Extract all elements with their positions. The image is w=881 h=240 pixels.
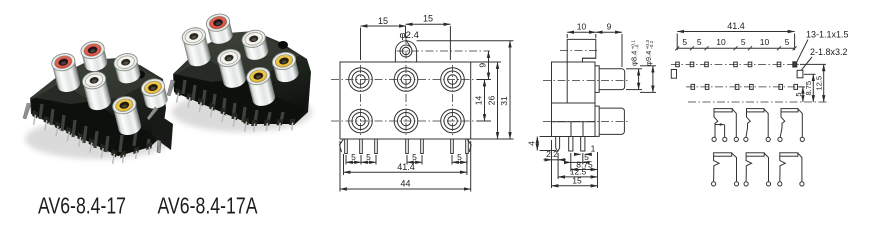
centerline col2 [405, 36, 407, 137]
svg-text:9: 9 [607, 22, 612, 32]
switch SW5 bar [746, 153, 764, 156]
dim 8.75 [571, 159, 598, 169]
svg-text:5: 5 [741, 37, 746, 47]
terminal SW3 b [800, 137, 804, 141]
mounting tab bump [395, 41, 416, 62]
bottom barrel flange [595, 106, 599, 136]
terminal SW2 b [766, 137, 770, 141]
switch SW1 right leg [732, 109, 736, 137]
svg-text:5: 5 [351, 152, 356, 162]
svg-text:13-1.1x1.5: 13-1.1x1.5 [806, 30, 849, 40]
switch SW3 contact [780, 112, 785, 137]
photo1 needle pins [34, 115, 150, 164]
jack B2 [394, 109, 418, 133]
svg-text:5: 5 [682, 37, 687, 47]
photo1 body block [30, 58, 166, 156]
pad A7 filled [793, 62, 797, 67]
internal pocket [571, 122, 595, 137]
dim phi9.4 [640, 40, 656, 93]
svg-text:5: 5 [697, 37, 702, 47]
pitch dim line [677, 47, 794, 49]
photo2 stray corner connector [147, 107, 173, 153]
photo1 jack front red [50, 51, 82, 94]
photo2 jack front white a [180, 25, 212, 68]
switch SW3 right leg [798, 109, 803, 137]
dim 8.75 pcb [804, 74, 816, 102]
dim 14 [474, 80, 492, 122]
dim 5 side [564, 152, 590, 162]
pad B5 [779, 84, 783, 89]
pad B2 [705, 84, 709, 89]
pin f3 [375, 139, 378, 154]
svg-text:2-1.8x3.2: 2-1.8x3.2 [810, 47, 848, 57]
dim 9 top [596, 22, 622, 68]
svg-text:AV6-8.4-17A: AV6-8.4-17A [158, 193, 259, 217]
extension line right ref [597, 152, 599, 188]
dim 26 [471, 62, 501, 139]
dim 9 [478, 51, 489, 80]
dim 41.4 [344, 154, 467, 175]
dim 5 pins c1a [346, 152, 361, 165]
svg-text:φ2.4: φ2.4 [400, 30, 419, 41]
terminal SW6 b [800, 182, 804, 186]
dim 15 side [552, 176, 598, 186]
switch SW1 left leg lower [714, 125, 716, 138]
terminal SW4 b [734, 182, 738, 186]
centerline row2 [331, 120, 477, 122]
photo2 needle pins [177, 93, 293, 132]
svg-text:2.2: 2.2 [546, 149, 558, 159]
photo2 top face highlight [174, 32, 300, 82]
svg-text:41.4: 41.4 [727, 21, 745, 31]
terminal SW6 a [778, 182, 782, 186]
top barrel flange [595, 66, 599, 93]
photo2 body front lower face [174, 58, 305, 124]
pad A2 [690, 62, 694, 67]
svg-text:φ9.4 +0.3-0.2: φ9.4 +0.3-0.2 [644, 40, 655, 66]
extension line pin3c [582, 153, 584, 165]
photo1 jack back yellow [140, 76, 170, 110]
photo1 front face ribs [40, 104, 149, 152]
pin f7 [466, 139, 469, 154]
extension line hookc [557, 153, 559, 179]
side pin 2 [569, 137, 573, 152]
tab hole phi2.4 [400, 45, 412, 57]
svg-text:1: 1 [591, 144, 596, 154]
tab step line [583, 57, 596, 59]
svg-text:15: 15 [378, 16, 388, 26]
switch SW3 bar [781, 109, 798, 112]
dim 10 [567, 22, 596, 39]
pin f1 [345, 139, 348, 154]
pad A6 [777, 62, 781, 67]
photo1 mounting hole [135, 71, 145, 79]
extension line pin2c [570, 153, 572, 172]
dim 5 pins c3 [452, 152, 467, 165]
svg-text:4: 4 [527, 141, 537, 146]
pad B3 [735, 84, 739, 89]
side hook pin [556, 137, 560, 152]
pad A3 [705, 62, 709, 67]
dim 2.2 [544, 149, 567, 160]
photo2 left hook pin [167, 80, 175, 96]
svg-text:AV6-8.4-17: AV6-8.4-17 [38, 193, 126, 217]
photo2 front face ribs [183, 80, 283, 123]
dim 5 pins c2 [407, 152, 422, 165]
row C centerline [688, 101, 828, 103]
switch SW2 bar [747, 109, 765, 112]
photo2 jack front yellow [245, 65, 277, 108]
switch SW1 contact [714, 112, 718, 125]
switch SW6 right leg [798, 153, 802, 181]
switch SW1 arrowhead [720, 123, 725, 126]
connector body outline [340, 62, 471, 139]
switch SW4 right leg [732, 153, 737, 181]
photo1 left hook pin [23, 103, 31, 119]
terminal SW4 a [712, 182, 716, 186]
row B centerline [686, 86, 800, 88]
centerline row1 [331, 79, 477, 81]
pitch tick 1 [675, 46, 679, 50]
internal shelf line [552, 102, 596, 104]
svg-text:31: 31 [499, 96, 509, 106]
pad B6 [794, 84, 798, 89]
svg-text:9: 9 [478, 63, 488, 68]
svg-text:5: 5 [785, 37, 790, 47]
dim phi8.4 [626, 40, 642, 90]
photo1 jack back red [79, 39, 109, 73]
label 13-1.1x1.5 [797, 30, 849, 62]
svg-text:15: 15 [572, 176, 582, 186]
photo2 jack back white [240, 28, 270, 62]
side pin 3 [581, 137, 585, 152]
terminal SW5 a [744, 182, 748, 186]
mount pad right [797, 70, 803, 78]
dim 31 [417, 41, 514, 139]
centerline col1 [360, 65, 362, 137]
svg-text:8.75: 8.75 [804, 81, 813, 96]
pitch tick 2 [690, 46, 694, 50]
photo1 top face highlight [31, 59, 158, 104]
dim 5 pins c1b [361, 152, 376, 165]
label 2-1.8x3.2 [802, 47, 848, 70]
terminal SW1 a [712, 137, 716, 141]
row A centerline [671, 63, 800, 65]
pitch tick 6 [777, 46, 781, 50]
dim 1 [575, 144, 596, 155]
photo2 jack back red [205, 12, 235, 46]
mounting tab side [567, 39, 596, 62]
switch SW1 bar [714, 109, 732, 112]
switch SW2 contact [746, 112, 750, 137]
tab centerline [560, 50, 597, 52]
photo2 fin teeth row [175, 88, 295, 126]
mount pad left [671, 70, 676, 79]
right mounting hook [467, 139, 471, 152]
switch SW5 right leg [764, 153, 768, 181]
photo2 jack back yellow [271, 50, 301, 84]
photo2 jack front white b [216, 47, 248, 90]
svg-text:5: 5 [412, 152, 417, 162]
switch SW1 wiper arm with arrow [715, 125, 725, 138]
pad A5 [748, 62, 752, 67]
internal vertical line [566, 62, 568, 103]
switch SW2 right leg [764, 109, 768, 137]
svg-text:26: 26 [487, 96, 497, 106]
centerline tab hole [397, 50, 491, 52]
pitch tick 4 [734, 46, 738, 50]
switch SW5 contact [746, 156, 752, 181]
pitch tick 5 [748, 46, 752, 50]
pad A1 [676, 62, 680, 67]
terminal SW1 c [734, 137, 738, 141]
photo1 jack back white [112, 51, 142, 85]
photo1 jack front white [81, 69, 113, 112]
terminal SW2 a [744, 137, 748, 141]
svg-text:10: 10 [716, 37, 726, 47]
pin f5 [421, 139, 424, 154]
svg-text:5: 5 [366, 152, 371, 162]
jack A2 [394, 68, 418, 92]
dim 44 [340, 141, 471, 192]
photo1 jack front yellow [111, 94, 143, 137]
svg-text:44: 44 [400, 179, 410, 189]
dim 41.4 pcb [677, 21, 794, 50]
photo1 fin teeth row [32, 110, 152, 158]
svg-text:41.4: 41.4 [397, 162, 415, 172]
top barrel [599, 69, 625, 90]
pitch tick 7 [793, 46, 797, 50]
pitch tick 3 [705, 46, 709, 50]
terminal SW5 b [766, 182, 770, 186]
photo2 mounting hole [278, 41, 288, 49]
centerline col3 [452, 65, 454, 137]
terminal SW1 b [723, 137, 727, 141]
svg-text:5: 5 [457, 152, 462, 162]
photo1 floor shadow [25, 119, 171, 159]
pin f4 [406, 139, 409, 154]
switch SW4 contact [714, 156, 720, 181]
bottom barrel [599, 108, 624, 134]
body side outline [552, 62, 596, 137]
svg-text:5: 5 [794, 92, 803, 96]
svg-text:12.5: 12.5 [815, 76, 824, 91]
svg-text:10: 10 [760, 37, 770, 47]
dim 12.5 pcb [800, 64, 826, 102]
jack A3 [441, 68, 465, 92]
pad B1 [691, 84, 695, 89]
svg-text:φ8.4 +0.1-0: φ8.4 +0.1-0 [630, 40, 641, 66]
left mounting hook [340, 139, 344, 152]
internal step vertical [552, 122, 572, 137]
label phi2.4 with leader [400, 30, 419, 47]
svg-text:10: 10 [577, 22, 587, 32]
dim 5 pcb [794, 87, 805, 102]
photo2 floor shadow [172, 92, 312, 132]
dim 15 right [406, 14, 451, 61]
dim 4 [527, 137, 557, 151]
pin f2 [360, 139, 363, 154]
pin f6 [451, 139, 454, 154]
jack B1 [349, 109, 373, 133]
top barrel centerline [543, 80, 629, 82]
extension line body left [551, 140, 553, 188]
jack B3 [441, 109, 465, 133]
switch SW4 bar [714, 153, 732, 156]
photo1 body front lower face [31, 83, 158, 156]
switch SW6 contact [780, 156, 786, 181]
svg-text:14: 14 [474, 96, 484, 106]
pad A4 [734, 62, 738, 67]
pad B4 [750, 84, 754, 89]
bottom barrel centerline [543, 121, 629, 123]
svg-text:15: 15 [423, 14, 433, 24]
photo2 body block [173, 31, 311, 124]
switch SW6 bar [780, 153, 798, 156]
dim 12.5 [558, 167, 597, 177]
jack A1 [349, 68, 373, 92]
terminal SW3 a [778, 137, 782, 141]
dim 15 left [361, 16, 407, 60]
